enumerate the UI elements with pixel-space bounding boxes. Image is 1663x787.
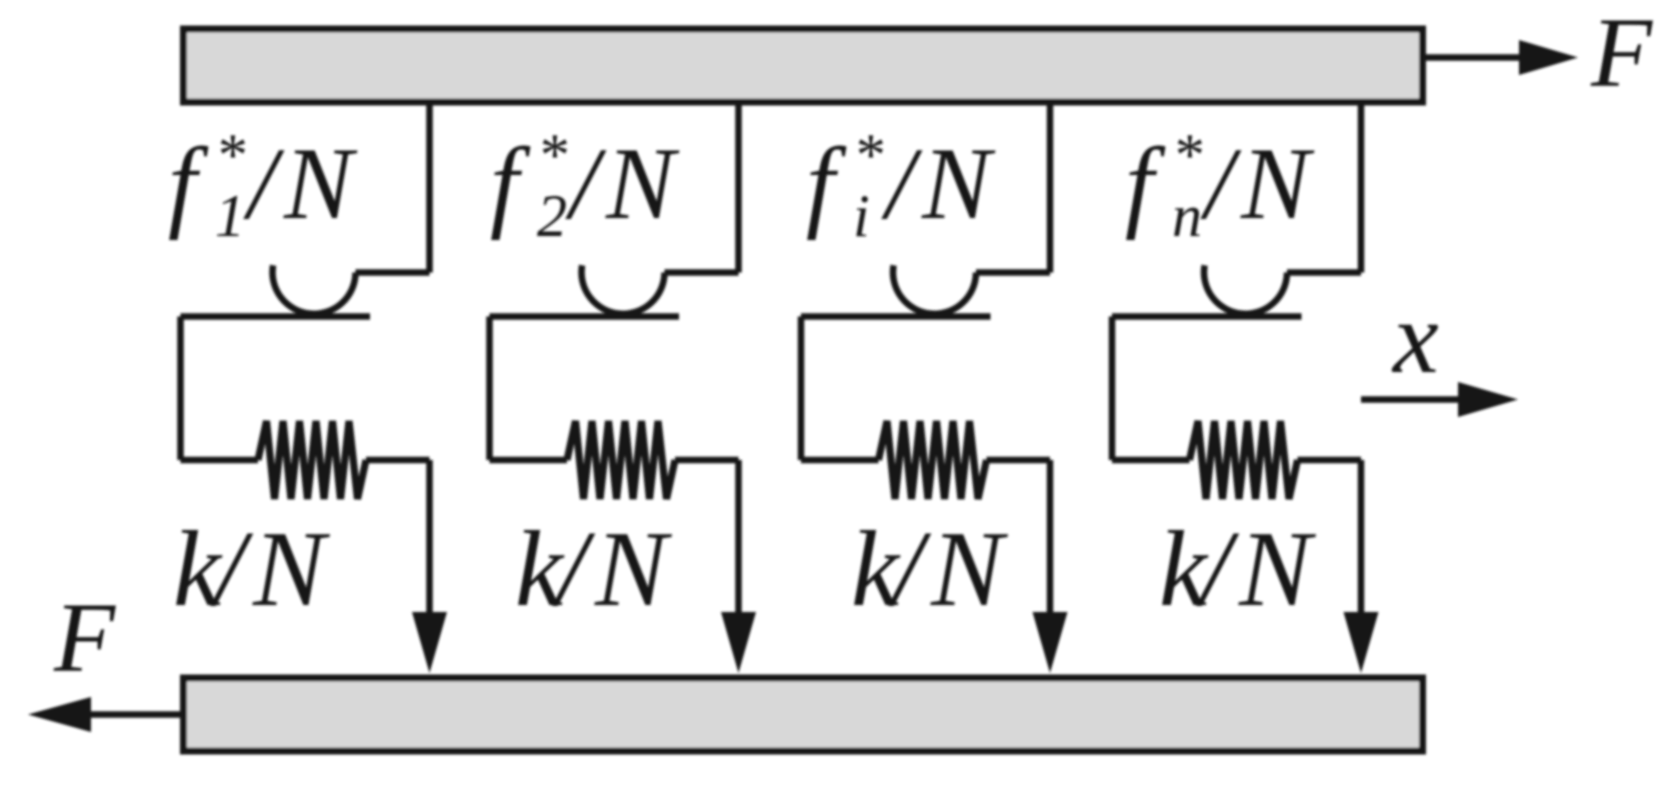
wire: spring right lead, element 4 bbox=[1298, 457, 1362, 464]
arrowhead into bottom bar, element 4 bbox=[1344, 612, 1379, 673]
contact plate line, element 1 bbox=[181, 313, 371, 320]
contact plate line, element 2 bbox=[490, 313, 680, 320]
wire: plate left vertical, element 3 bbox=[798, 317, 805, 461]
friction contact arc fn, element 4 bbox=[1204, 265, 1287, 314]
svg-text:/: / bbox=[552, 510, 596, 629]
friction contact arc f1, element 1 bbox=[273, 265, 356, 314]
wire: spring left lead, element 2 bbox=[490, 457, 568, 464]
wire: spring left lead, element 1 bbox=[181, 457, 259, 464]
svg-text:*: * bbox=[215, 122, 245, 188]
svg-text:x: x bbox=[1391, 281, 1439, 395]
label f*_i/N, element 3 bbox=[806, 122, 996, 249]
svg-text:/: / bbox=[881, 127, 923, 241]
spring k/N zigzag, element 1 bbox=[258, 421, 366, 499]
wire: spring left lead, element 4 bbox=[1112, 457, 1190, 464]
wire: contact upper lead, element 3 bbox=[976, 269, 1050, 276]
arrowhead into bottom bar, element 2 bbox=[721, 612, 756, 673]
svg-text:N: N bbox=[283, 127, 358, 241]
label f*_2/N, element 2 bbox=[490, 122, 680, 249]
label f*_1/N, element 1 bbox=[168, 122, 358, 249]
wire: contact upper lead, element 4 bbox=[1287, 269, 1361, 276]
bottom bar (lower plate) bbox=[184, 678, 1423, 751]
wire: spring right lead, element 3 bbox=[987, 457, 1051, 464]
label k/N, element 2 bbox=[515, 510, 673, 629]
wire: drop from top bar, element 1 bbox=[426, 100, 433, 273]
arrowhead into bottom bar, element 1 bbox=[412, 612, 447, 673]
svg-text:*: * bbox=[853, 122, 883, 188]
spring k/N zigzag, element 3 bbox=[879, 421, 987, 499]
svg-text:N: N bbox=[1240, 127, 1315, 241]
svg-text:F: F bbox=[1590, 0, 1653, 108]
arrowhead into bottom bar, element 3 bbox=[1033, 612, 1068, 673]
svg-text:/: / bbox=[1196, 510, 1240, 629]
svg-text:2: 2 bbox=[537, 183, 567, 249]
label k/N, element 3 bbox=[851, 510, 1009, 629]
displacement arrow x bbox=[1361, 396, 1461, 403]
wire: spring left lead, element 3 bbox=[801, 457, 879, 464]
friction contact arc fi, element 3 bbox=[893, 265, 976, 314]
wire: vertical to bottom bar, element 2 bbox=[735, 460, 742, 620]
friction contact arc f2, element 2 bbox=[582, 265, 665, 314]
force arrow F (bottom left) bbox=[88, 711, 181, 718]
svg-text:N: N bbox=[921, 127, 996, 241]
svg-text:/: / bbox=[210, 510, 254, 629]
wire: vertical to bottom bar, element 4 bbox=[1358, 460, 1365, 620]
spring k/N zigzag, element 2 bbox=[567, 421, 675, 499]
svg-text:N: N bbox=[594, 510, 673, 629]
svg-text:N: N bbox=[252, 510, 331, 629]
svg-text:n: n bbox=[1172, 183, 1202, 249]
wire: vertical to bottom bar, element 1 bbox=[426, 460, 433, 620]
svg-text:F: F bbox=[53, 582, 116, 693]
svg-text:/: / bbox=[243, 127, 285, 241]
contact plate line, element 4 bbox=[1112, 313, 1302, 320]
svg-text:/: / bbox=[888, 510, 932, 629]
wire: contact upper lead, element 2 bbox=[665, 269, 739, 276]
wire: spring right lead, element 2 bbox=[675, 457, 739, 464]
svg-text:/: / bbox=[565, 127, 607, 241]
svg-text:1: 1 bbox=[215, 183, 245, 249]
force arrow F (top right) bbox=[1426, 54, 1522, 61]
svg-text:f: f bbox=[168, 127, 209, 241]
contact plate line, element 3 bbox=[801, 313, 991, 320]
svg-text:f: f bbox=[806, 127, 847, 241]
svg-text:N: N bbox=[930, 510, 1009, 629]
wire: drop from top bar, element 2 bbox=[735, 100, 742, 273]
wire: plate left vertical, element 2 bbox=[486, 317, 493, 461]
wire: drop from top bar, element 4 bbox=[1358, 100, 1365, 273]
svg-text:/: / bbox=[1200, 127, 1242, 241]
svg-text:N: N bbox=[605, 127, 680, 241]
svg-text:f: f bbox=[1125, 127, 1166, 241]
wire: vertical to bottom bar, element 3 bbox=[1047, 460, 1054, 620]
label k/N, element 4 bbox=[1159, 510, 1317, 629]
wire: contact upper lead, element 1 bbox=[356, 269, 430, 276]
label f*_n/N, element 4 bbox=[1125, 122, 1315, 249]
top bar (upper plate) bbox=[184, 29, 1423, 102]
svg-text:*: * bbox=[537, 122, 567, 188]
svg-text:*: * bbox=[1172, 122, 1202, 188]
wire: plate left vertical, element 1 bbox=[177, 317, 184, 461]
wire: plate left vertical, element 4 bbox=[1109, 317, 1116, 461]
svg-text:f: f bbox=[490, 127, 531, 241]
wire: drop from top bar, element 3 bbox=[1047, 100, 1054, 273]
spring k/N zigzag, element 4 bbox=[1190, 421, 1298, 499]
svg-text:N: N bbox=[1238, 510, 1317, 629]
label k/N, element 1 bbox=[173, 510, 331, 629]
svg-text:i: i bbox=[853, 183, 870, 249]
wire: spring right lead, element 1 bbox=[366, 457, 430, 464]
